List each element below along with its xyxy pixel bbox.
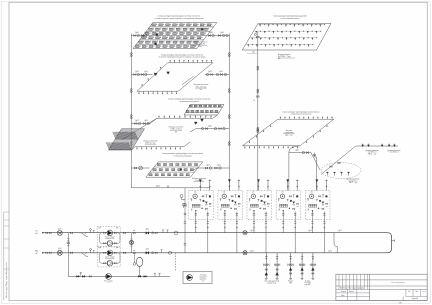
svg-text:Ду65: Ду65	[295, 149, 298, 151]
svg-text:в техническом присмотре: в техническом присмотре	[173, 155, 192, 157]
svg-text:давления: давления	[200, 279, 206, 281]
svg-text:Пров.: Пров.	[341, 295, 345, 297]
svg-text:на промежуточном уровне: на промежуточном уровне	[179, 101, 199, 103]
svg-text:Ду40: Ду40	[220, 32, 224, 34]
svg-text:250: 250	[194, 192, 196, 194]
svg-text:Схема разводки трубопроводов с: Схема разводки трубопроводов системы ото…	[168, 99, 210, 101]
svg-text:Ду25: Ду25	[206, 164, 209, 166]
svg-text:Ду32: Ду32	[208, 125, 211, 127]
svg-text:Нагрузка водяная: Нагрузка водяная	[278, 54, 291, 56]
svg-text:250: 250	[311, 192, 313, 194]
svg-text:Ду76: Ду76	[250, 250, 253, 252]
svg-text:Ду32: Ду32	[144, 71, 148, 73]
svg-text:Ду76: Ду76	[146, 229, 149, 231]
svg-text:Гкал: Гкал	[198, 46, 201, 48]
svg-text:по отметке газ: по отметке газ	[349, 180, 358, 182]
svg-text:по отметке газ: по отметке газ	[390, 152, 399, 154]
svg-text:Нагрузка отопления: Нагрузка отопления	[194, 84, 209, 86]
svg-text:Ду50: Ду50	[156, 186, 160, 188]
svg-text:Листов: Листов	[422, 291, 426, 293]
svg-text:Ду76: Ду76	[338, 230, 341, 232]
svg-text:Ду76: Ду76	[146, 249, 149, 251]
svg-text:Иванов: Иванов	[349, 291, 354, 293]
svg-text:Час: Час	[278, 58, 281, 60]
svg-text:Ду32: Ду32	[208, 71, 212, 73]
svg-text:Нагрузка: Нагрузка	[286, 130, 292, 132]
svg-text:Схема разводки трубопроводов д: Схема разводки трубопроводов душевой	[273, 15, 307, 18]
svg-text:воды НВК: воды НВК	[305, 284, 311, 286]
svg-text:Изм. Кол.уч. Лист №док. Подп: Изм. Кол.уч. Лист №док. Подп. Дата	[340, 288, 364, 290]
svg-text:250: 250	[252, 192, 254, 194]
svg-text:Инв. № подл. Подп. и дата: Инв. № подл. Подп. и дата Взам. инв. №	[5, 262, 8, 298]
svg-text:Т21: Т21	[35, 251, 38, 253]
svg-text:ПВХ-П — рус: ПВХ-П — рус	[349, 182, 358, 184]
svg-text:Схема разводки трубопроводов с: Схема разводки трубопроводов системы ото…	[158, 16, 200, 18]
svg-text:Прибор: Прибор	[288, 281, 293, 283]
svg-text:Нагрузка отопления: Нагрузка отопления	[144, 140, 158, 142]
svg-text:250: 250	[281, 192, 283, 194]
svg-text:кВт: кВт	[175, 132, 178, 134]
svg-text:2 шт: 2 шт	[202, 281, 205, 283]
svg-text:0,00: 0,00	[252, 52, 255, 54]
svg-text:2 шт: 2 шт	[107, 282, 110, 284]
svg-text:по отметке газ: по отметке газ	[368, 152, 377, 154]
svg-text:ПВХ-П — рус: ПВХ-П — рус	[368, 153, 377, 155]
svg-text:Час: Час	[200, 89, 203, 91]
svg-text:Схема разводки трубопроводов с: Схема разводки трубопроводов системы ото…	[161, 54, 203, 56]
svg-text:Ду40: Ду40	[144, 32, 148, 34]
svg-text:отопления 2шт: отопления 2шт	[105, 258, 114, 260]
svg-text:Ду76: Ду76	[308, 230, 311, 232]
svg-text:Схема трубопроводов: Схема трубопроводов	[391, 282, 405, 284]
svg-text:Ду76: Ду76	[58, 228, 61, 230]
svg-text:на отметке верхнего уровня пар: на отметке верхнего уровня паркинга и ос…	[155, 18, 204, 20]
svg-text:Ст1: Ст1	[253, 100, 256, 102]
svg-text:пожаротушения автостоянки: пожаротушения автостоянки	[291, 114, 312, 116]
svg-text:Ду76: Ду76	[328, 250, 331, 252]
svg-text:Ду32: Ду32	[135, 120, 139, 122]
svg-text:Схема разводки трубопроводов с: Схема разводки трубопроводов спринклерно…	[283, 111, 320, 113]
svg-text:Ду40: Ду40	[135, 32, 139, 34]
svg-text:Лист: Лист	[415, 291, 418, 293]
svg-text:Ду32: Ду32	[144, 120, 148, 122]
svg-text:Разраб.: Разраб.	[341, 291, 347, 293]
svg-text:Ду32: Ду32	[135, 71, 139, 73]
svg-text:Т11: Т11	[35, 231, 38, 233]
svg-text:Ду25: Ду25	[217, 164, 220, 166]
svg-text:Ду76: Ду76	[58, 248, 61, 250]
svg-text:Ду32: Ду32	[219, 71, 223, 73]
svg-text:отопления 2шт: отопления 2шт	[105, 238, 114, 240]
svg-text:НВК: НВК	[289, 282, 292, 284]
svg-text:повышения: повышения	[199, 277, 207, 279]
svg-text:Ду76: Ду76	[250, 230, 253, 232]
svg-text:250: 250	[223, 192, 225, 194]
svg-text:Нагрузка отопления: Нагрузка отопления	[193, 41, 208, 43]
svg-text:Схема разводки трубопроводов с: Схема разводки трубопроводов системы ото…	[162, 153, 203, 155]
svg-text:Ду40: Ду40	[209, 32, 213, 34]
svg-text:на отметке промежуточного уров: на отметке промежуточного уровня паркинг…	[159, 57, 207, 59]
svg-text:Установка: Установка	[200, 275, 207, 277]
svg-text:Нагрузка отопления: Нагрузка отопления	[169, 127, 184, 129]
